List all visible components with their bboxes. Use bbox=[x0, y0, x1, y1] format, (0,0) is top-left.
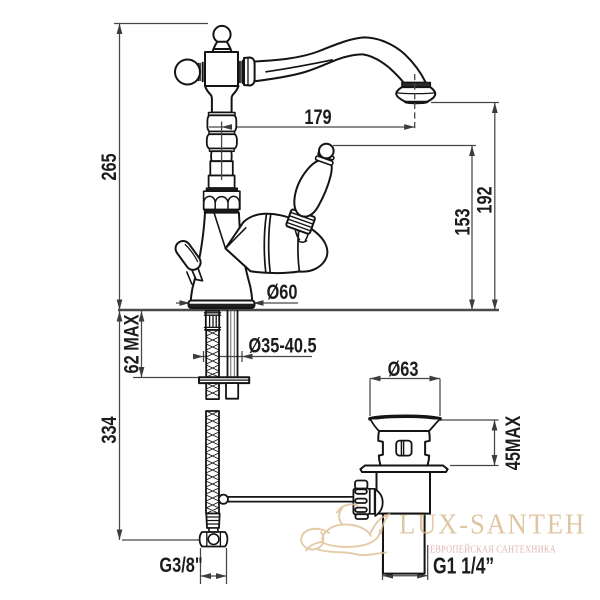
hose upper (hatched) bbox=[206, 330, 219, 377]
arrow 179 left bbox=[222, 124, 233, 130]
label 179 bbox=[304, 106, 331, 130]
drain lower flange bbox=[360, 466, 447, 473]
extension lines 45MAX bbox=[430, 419, 499, 421]
dimension line 192 vertical bbox=[494, 103, 496, 311]
lever grip bbox=[294, 160, 331, 217]
extension line nozzle bottom (192) bbox=[431, 102, 499, 104]
nozzle bulb bbox=[396, 87, 435, 102]
column bulge A bbox=[207, 115, 236, 131]
arrow G114 left bbox=[383, 573, 394, 579]
arrow d35 right outside bbox=[242, 354, 253, 360]
svg-text:179: 179 bbox=[304, 106, 331, 130]
rod ball joint bbox=[219, 495, 228, 504]
dome back divider bbox=[298, 222, 300, 272]
arrow 265 bottom bbox=[117, 300, 123, 311]
arrow 192 bottom bbox=[492, 300, 498, 311]
arrow G38 right bbox=[216, 573, 227, 579]
label G1 1/4" bbox=[433, 554, 494, 579]
drain top flange bbox=[370, 416, 440, 419]
arrow 334 bottom bbox=[117, 530, 123, 541]
bell body bbox=[191, 213, 252, 301]
svg-text:G1 1/4”: G1 1/4” bbox=[433, 554, 494, 579]
dome seam ring bbox=[264, 215, 270, 273]
lever top collar bbox=[315, 151, 335, 165]
faucet column centerline bbox=[221, 122, 223, 181]
mounting plate bbox=[199, 377, 249, 383]
nozzle bottom rim bbox=[405, 102, 427, 103]
arrow d35 left outside bbox=[193, 354, 204, 360]
dimension line 153 vertical bbox=[471, 146, 473, 311]
drain tube bbox=[377, 472, 431, 514]
spout flange bbox=[244, 58, 255, 86]
dimension graphics bbox=[114, 24, 499, 585]
drain coupling nut body bbox=[353, 489, 369, 515]
straight section bbox=[210, 161, 233, 175]
wider section bbox=[209, 176, 235, 189]
arrow 179 right bbox=[404, 124, 415, 130]
dark band upper bbox=[206, 188, 237, 191]
arrow 192 top bbox=[492, 103, 498, 114]
dimension lines diameter 60 bbox=[176, 302, 190, 304]
G3/8 nut ball bbox=[208, 534, 219, 545]
hose neck bbox=[209, 528, 218, 532]
label G3/8" bbox=[159, 554, 202, 578]
label 265 bbox=[98, 153, 122, 181]
body block bbox=[205, 52, 238, 86]
nozzle collar bbox=[402, 83, 430, 88]
dimension line diameter 63 bbox=[370, 378, 440, 380]
ring lines bbox=[210, 149, 235, 152]
drain slot bbox=[396, 441, 411, 456]
drain coupling nut grooves bbox=[355, 489, 367, 493]
arrow 62MAX top bbox=[139, 311, 145, 322]
arrow d60 left bbox=[180, 300, 191, 306]
left small knob bbox=[173, 238, 204, 273]
svg-text:LUX-SANTEH: LUX-SANTEH bbox=[399, 510, 586, 541]
skirt ring bbox=[209, 113, 236, 116]
label 334 bbox=[98, 416, 122, 444]
base flange bbox=[189, 301, 255, 309]
dimension line 179 horizontal bbox=[222, 126, 415, 128]
dimension labels bbox=[98, 106, 526, 579]
arrow 265 top bbox=[117, 24, 123, 35]
svg-text:ЕВРОПЕЙСКАЯ САНТЕХНИКА: ЕВРОПЕЙСКАЯ САНТЕХНИКА bbox=[430, 544, 556, 556]
svg-text:62 MAX: 62 MAX bbox=[120, 314, 144, 373]
label 192 bbox=[473, 186, 497, 213]
spout tube bbox=[253, 37, 426, 82]
column bulge B bbox=[207, 134, 237, 148]
arrow 153 bottom bbox=[469, 300, 475, 311]
lever ball bbox=[319, 144, 334, 159]
ribbed connector below flange bbox=[206, 311, 219, 330]
svg-text:45MAX: 45MAX bbox=[502, 416, 526, 471]
drain coupling nut top cap bbox=[355, 481, 367, 489]
pop-up rod bbox=[228, 497, 353, 502]
extension line lever ball (153) bbox=[333, 145, 476, 147]
ring lines bbox=[209, 132, 235, 135]
svg-text:192: 192 bbox=[473, 186, 497, 213]
drain body bbox=[378, 431, 429, 466]
swan ornament bbox=[301, 504, 388, 555]
extension line top of faucet bbox=[114, 23, 208, 25]
left knob neck ridges bbox=[198, 63, 204, 82]
G3/8 nut bbox=[200, 532, 228, 547]
arrow 153 top bbox=[469, 146, 475, 157]
dimension line 265 + 334 vertical bbox=[119, 24, 121, 541]
label 153 bbox=[451, 208, 475, 235]
left small knob neck bbox=[191, 264, 203, 281]
neck bbox=[211, 151, 232, 161]
extension line hose nut bottom (334) bbox=[122, 539, 200, 541]
arrow d63 left bbox=[370, 376, 381, 382]
svg-text:G3/8": G3/8" bbox=[159, 554, 202, 578]
arrow d60 right bbox=[253, 300, 264, 306]
lever lower neck bbox=[295, 230, 308, 242]
extension + dimension lines G3/8 bbox=[200, 548, 202, 584]
drain olive bbox=[375, 489, 383, 516]
label 62 MAX bbox=[120, 314, 144, 373]
arrowheads bbox=[117, 24, 498, 580]
drain coupling nut bottom cap bbox=[355, 514, 368, 519]
spout crease line bbox=[266, 60, 332, 72]
arrow G114 right bbox=[417, 573, 428, 579]
svg-text:Ø60: Ø60 bbox=[267, 281, 298, 305]
label d35-40.5 bbox=[248, 334, 316, 358]
nozzle dashed centerline bbox=[414, 74, 416, 129]
ball finial bbox=[213, 26, 230, 43]
hose stub below plate (hatched) bbox=[206, 383, 219, 399]
svg-text:153: 153 bbox=[451, 208, 475, 235]
hose lower (hatched) bbox=[206, 411, 219, 514]
dark band lower bbox=[204, 209, 238, 212]
hose end fitting ribbed bbox=[206, 514, 219, 529]
right spout ridges bbox=[239, 61, 244, 84]
overlay dimension marks above drawing bbox=[209, 74, 415, 180]
label 45MAX bbox=[502, 416, 526, 471]
179 left overshoot line bbox=[209, 126, 229, 128]
extension line plate top bbox=[133, 377, 200, 379]
scallop band with arches bbox=[204, 191, 240, 209]
svg-text:Ø35-40.5: Ø35-40.5 bbox=[248, 334, 316, 358]
arrow 45MAX top bbox=[492, 420, 498, 431]
dimension line 62MAX vertical bbox=[141, 310, 143, 378]
drain sleeve bbox=[370, 489, 375, 514]
arrow G38 left bbox=[201, 573, 212, 579]
cone fan lines bbox=[214, 212, 251, 271]
arrow 45MAX bottom bbox=[492, 455, 498, 466]
drain tailpipe bbox=[383, 514, 425, 574]
nut below plate bbox=[226, 383, 238, 399]
dome outline bbox=[226, 214, 328, 273]
dimension line 45MAX vertical bbox=[494, 420, 496, 466]
arrow 334 top bbox=[117, 311, 123, 322]
taper below block bbox=[205, 86, 239, 113]
svg-text:334: 334 bbox=[98, 416, 122, 444]
arrow d63 right bbox=[430, 376, 441, 382]
left knob ball bbox=[175, 60, 200, 85]
label d63 bbox=[388, 358, 419, 382]
arrow 62MAX bottom bbox=[139, 367, 145, 378]
counter top line bbox=[118, 309, 499, 312]
finial collar bbox=[214, 42, 231, 49]
dimension line diameter 35-40.5 bbox=[194, 356, 312, 358]
label d60 bbox=[267, 281, 298, 305]
svg-text:265: 265 bbox=[98, 153, 122, 181]
lever ribbed collar bbox=[286, 209, 316, 234]
extension + dimension lines G1 1/4 bbox=[382, 550, 384, 580]
svg-text:Ø63: Ø63 bbox=[388, 358, 419, 382]
mounting stud pipe bbox=[228, 311, 238, 378]
